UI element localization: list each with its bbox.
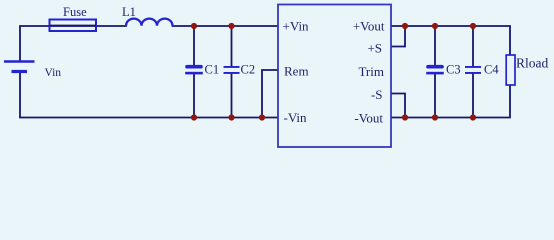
junction at -S tap (return rail) — [402, 114, 408, 120]
wire: C2 bottom lead — [231, 74, 233, 118]
wire: C2 top lead — [231, 26, 233, 67]
svg-text:-S: -S — [371, 87, 383, 102]
wire: C3 bottom lead — [434, 74, 436, 118]
junction at C2 node (ground rail) — [228, 114, 234, 120]
capacitor C4 top plate — [465, 66, 481, 68]
svg-text:Trim: Trim — [358, 64, 384, 79]
fuse F (body) — [50, 20, 97, 32]
wire: -S sense bracket — [391, 94, 405, 118]
svg-text:Vin: Vin — [45, 67, 62, 79]
junction at Rem wire (ground rail) — [259, 114, 265, 120]
svg-text:+Vin: +Vin — [283, 19, 310, 34]
junction at C1 node (ground rail) — [191, 114, 197, 120]
capacitor C1 top plate (polarized) — [185, 65, 203, 69]
svg-text:+S: +S — [367, 41, 382, 56]
battery Vin negative plate — [12, 70, 28, 73]
capacitor C4 bottom plate — [465, 72, 481, 74]
svg-text:L1: L1 — [122, 5, 136, 19]
svg-text:C4: C4 — [484, 63, 499, 77]
fuse wire through body — [50, 25, 97, 27]
wire: +S sense bracket — [391, 26, 405, 47]
svg-text:Rload: Rload — [516, 55, 548, 70]
wire: battery bottom lead + bottom ground rail to module -Vin — [20, 72, 278, 118]
wire: Rem pin to ground rail — [262, 70, 278, 118]
junction at C3 node (return rail) — [432, 114, 438, 120]
wire: C1 top lead — [193, 26, 195, 66]
resistor Rload (body) — [506, 55, 515, 85]
wire: C1 bottom lead — [193, 74, 195, 118]
svg-text:Fuse: Fuse — [63, 5, 87, 19]
svg-text:C2: C2 — [241, 63, 256, 77]
battery Vin positive plate — [4, 60, 35, 63]
wire: C4 top lead — [472, 26, 474, 67]
capacitor C2 bottom plate — [224, 72, 240, 74]
capacitor C2 top plate — [224, 66, 240, 68]
junction at C4 node (return rail) — [470, 114, 476, 120]
wire: left vertical + top rail to inductor — [20, 26, 126, 62]
svg-text:-Vin: -Vin — [284, 110, 308, 125]
inductor L1 — [126, 19, 173, 26]
wire: C4 bottom lead — [472, 74, 474, 118]
junction at C3 node (top) — [432, 23, 438, 29]
wire: +Vout top rail to Rload top — [391, 26, 510, 55]
svg-text:-Vout: -Vout — [354, 110, 383, 125]
wire: C3 top lead — [434, 26, 436, 66]
svg-text:Rem: Rem — [284, 64, 309, 79]
junction at C2 node (top) — [228, 23, 234, 29]
capacitor C3 top plate (polarized) — [426, 65, 444, 69]
svg-text:+Vout: +Vout — [353, 19, 385, 34]
junction at L1/C1 node (top) — [191, 23, 197, 29]
wire: inductor output to module +Vin — [173, 25, 279, 27]
svg-text:C3: C3 — [446, 63, 461, 77]
junction at C4 node (top) — [470, 23, 476, 29]
capacitor C1 bottom plate — [185, 72, 203, 75]
wire: -Vout bottom rail + Rload bottom — [391, 85, 510, 118]
DC/DC converter module U1 (body) — [278, 5, 391, 148]
svg-text:C1: C1 — [205, 63, 220, 77]
junction at +S tap (output rail) — [402, 23, 408, 29]
capacitor C3 bottom plate — [426, 72, 444, 75]
